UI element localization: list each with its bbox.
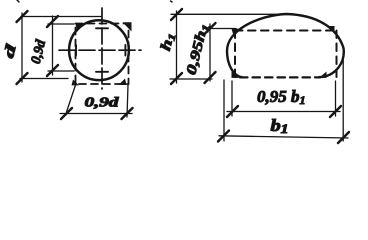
- svg-text:0,95 b1: 0,95 b1: [257, 87, 306, 107]
- dimension d: slash tick bottom: [17, 73, 28, 84]
- dimension b1: extension line left: [223, 80, 225, 141]
- horizontal centerline: [59, 49, 141, 51]
- dimension b1: dimension line: [219, 136, 348, 138]
- dimension 0.9d vertical: dimension line: [52, 16, 54, 75]
- corner tick bottom-left of rect: [232, 72, 240, 78]
- dimension 0.95b1: extension line right: [335, 81, 337, 116]
- dimension 0.9d horizontal: extension line right: [127, 85, 128, 117]
- dimension h1: extension line top: [171, 13, 287, 15]
- dimension d: extension line top: [21, 16, 101, 18]
- dimension d: dimension line: [21, 13, 23, 82]
- dimension h1: slash tick top: [171, 9, 182, 20]
- dimension 0.9d horizontal below circle: extension line left: [67, 85, 76, 112]
- tick on vertical centerline upper: [96, 27, 108, 29]
- tick on horizontal centerline left: [75, 45, 77, 56]
- vertical centerline: [101, 8, 103, 89]
- dimension 0.9d vertical: extension line top: [48, 23, 74, 25]
- svg-text:b1: b1: [271, 116, 289, 136]
- dimension 0.9d vertical: extension line bottom: [48, 70, 74, 72]
- dashed rectangle: left edge: [234, 31, 236, 78]
- corner tick bottom-right of square: [119, 79, 127, 86]
- svg-text:d: d: [1, 42, 20, 60]
- dimension 0.9d horizontal: slash tick right: [122, 108, 133, 119]
- corner tick top-left of square: [76, 24, 84, 31]
- svg-text:0,9d: 0,9d: [29, 38, 50, 66]
- stray scan mark top-left: [17, 0, 19, 2]
- dimension h1: slash tick bottom: [171, 73, 182, 84]
- dimension d: extension line bottom: [20, 78, 68, 80]
- dimension 0.95b1: extension line left: [231, 81, 233, 116]
- corner tick top-left of rect: [232, 29, 239, 34]
- dimension 0.9d horizontal: slash tick left: [61, 108, 72, 119]
- svg-text:h1: h1: [158, 31, 179, 53]
- tick on horizontal centerline right: [124, 45, 126, 56]
- dashed rectangle 0.95b1 x 0.95h1: top edge: [235, 30, 335, 32]
- dashed rectangle: right edge: [336, 31, 338, 78]
- dimension b1: slash tick left: [218, 131, 229, 142]
- dimension 0.95b1: slash tick right: [330, 106, 341, 117]
- dimension 0.9d vertical: slash tick top: [47, 16, 58, 27]
- dimension 0.95b1: dimension line: [227, 111, 340, 113]
- circle (duct diameter d): [69, 20, 129, 80]
- dimension 0.9d horizontal: dimension line: [60, 113, 132, 115]
- dimension d: slash tick top: [17, 11, 28, 22]
- oval/rect bottom dashed edge: [240, 76, 320, 78]
- corner tick bottom-left of square: [72, 80, 80, 86]
- stray scan dot near h1 top: [171, 1, 173, 2]
- dimension h1: dimension line: [176, 11, 178, 83]
- dimension 0.9d vertical: slash tick bottom: [47, 65, 58, 76]
- dimension 0.95b1: slash tick left: [227, 106, 238, 117]
- corner tick bottom-right of rect: [319, 72, 327, 78]
- dimension 0.95h1: dimension line: [209, 24, 211, 81]
- corner tick top-right of rect: [327, 26, 335, 34]
- dimension 0.95h1: slash tick top: [205, 23, 216, 34]
- tick on vertical centerline lower: [96, 71, 108, 73]
- dimension b1: extension line right: [342, 53, 344, 141]
- dashed square 0.9d x 0.9d: [76, 24, 129, 85]
- oval outline (solid part around left, top, right): [227, 14, 344, 77]
- corner tick top-right of square: [123, 22, 132, 31]
- svg-text:0,95h1: 0,95h1: [184, 22, 212, 76]
- dimension b1: slash tick right: [338, 132, 349, 143]
- dimension h1: extension line bottom: [170, 78, 212, 80]
- svg-text:0,9d: 0,9d: [85, 95, 120, 110]
- dimension 0.95h1: extension line top: [206, 28, 236, 30]
- dimension 0.95h1: slash tick bottom: [205, 72, 216, 83]
